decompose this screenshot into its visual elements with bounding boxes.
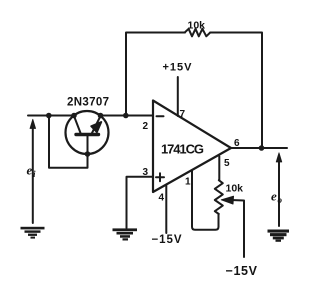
wire pin 4 supply [165,185,167,233]
wire input left segment [28,115,74,117]
node: output junction [259,145,265,151]
op-amp U1 triangle [153,101,231,193]
svg-text:2: 2 [143,121,149,132]
svg-text:−15V: −15V [152,234,182,246]
svg-text:6: 6 [234,138,240,149]
op-amp U1 plus sign [156,173,164,181]
svg-text:1: 1 [185,177,191,188]
wire output [231,147,287,149]
svg-text:i: i [33,169,36,179]
svg-text:o: o [278,195,283,205]
node: input to base loop junction [46,113,52,119]
node: feedback tap junction [123,113,129,119]
svg-text:5: 5 [224,158,230,169]
source arrow e_i [32,123,34,223]
wire feedback top right and down [210,33,262,149]
svg-text:10k: 10k [188,20,206,32]
transistor Q1 emitter lead [92,116,101,133]
wire pin 7 supply [177,77,179,116]
wire pin 5 [218,156,220,180]
svg-text:2N3707: 2N3707 [67,97,109,109]
svg-text:1741CG: 1741CG [161,141,204,156]
op-amp U1 minus sign [157,115,164,117]
wire feedback loop left and top [126,33,185,116]
transistor Q1 base bar [76,133,99,136]
resistor R1 10k zigzag [185,29,211,37]
svg-text:3: 3 [143,167,149,178]
svg-text:e: e [27,163,33,178]
resistor R2 10k pot zigzag [215,180,223,214]
wire pin 3 to ground [127,177,154,228]
ground (pin 3) [113,228,138,240]
ground (output) [268,230,290,242]
svg-text:e: e [271,189,277,204]
transistor Q1 base lead [87,136,89,154]
svg-text:10k: 10k [226,183,244,195]
wire base return loop [49,116,88,168]
transistor Q1 2N3707 body circle [66,111,109,154]
svg-text:4: 4 [159,193,165,204]
output arrow e_o [278,157,280,226]
transistor Q1 collector lead [74,116,81,133]
svg-text:7: 7 [180,109,186,120]
node: emitter junction [98,113,104,119]
wire emitter to op-amp pin 2 [101,115,154,117]
node: collector junction [71,113,77,119]
wire pot wiper [231,200,244,257]
ground (input source) [21,227,45,239]
svg-text:−15V: −15V [226,264,258,278]
wire pot bottom to pin 1 [192,171,219,230]
transistor Q1 emitter arrow [91,122,101,132]
svg-text:+15V: +15V [163,62,193,74]
pot wiper arrowhead [221,196,233,204]
node: base bottom junction [85,151,91,157]
